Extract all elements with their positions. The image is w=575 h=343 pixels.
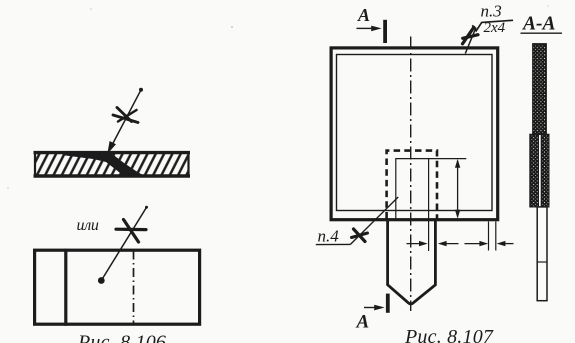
svg-text:А-А: А-А <box>521 13 556 34</box>
svg-text:п.3: п.3 <box>481 1 502 20</box>
svg-text:А: А <box>356 312 370 333</box>
svg-text:Рис. 8.106: Рис. 8.106 <box>77 331 166 343</box>
svg-text:п.4: п.4 <box>318 227 340 246</box>
svg-text:А: А <box>357 5 370 25</box>
svg-text:или: или <box>77 217 99 234</box>
svg-text:Рис. 8.107: Рис. 8.107 <box>404 326 494 343</box>
svg-text:2х4: 2х4 <box>484 20 506 36</box>
